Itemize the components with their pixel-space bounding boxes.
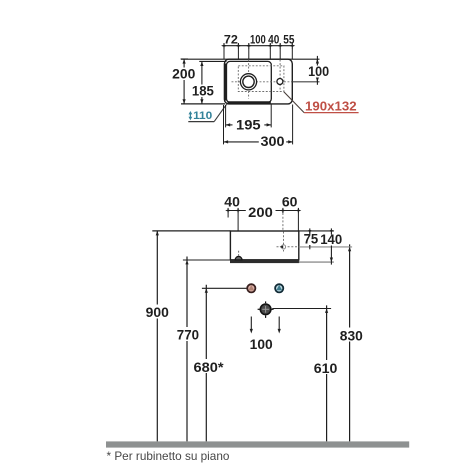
dimension 75 line [307,228,313,249]
teal depth arrow glyph [189,111,193,120]
svg-text:195: 195 [236,118,261,133]
extension line 60 left dashed [282,213,284,231]
footnote text [107,450,230,463]
svg-text:610: 610 [314,361,338,376]
tap hole circle [277,79,283,85]
dimension 610 line [272,305,331,441]
svg-text:200: 200 [248,205,273,220]
note 110 leader line [214,104,226,121]
dimension label 40 bottom [224,195,240,210]
svg-text:185: 185 [192,83,215,98]
red label 190x132 [305,99,357,113]
right bottom extension line [299,261,334,263]
tap position symbol [280,245,286,249]
dimension 140 line [329,228,335,264]
svg-text:680*: 680* [194,360,225,375]
extension line 40 left [227,213,229,218]
dimension label 900 [145,305,171,320]
washbasin plan view outer outline [224,59,292,104]
red underline [304,112,359,114]
dimension label 770 [176,327,201,343]
dimension 185 line [200,61,203,104]
dimension 300 line [224,105,293,145]
svg-text:40: 40 [224,195,240,210]
dimension label 610 [313,360,339,376]
dimension label 100 bottom [250,337,273,352]
extension line 200 left [237,213,239,231]
dimension 200 line [181,59,188,104]
svg-text:300: 300 [261,134,285,149]
right top extension line [299,230,334,232]
floor bar [106,441,409,447]
svg-text:200: 200 [172,67,195,82]
svg-text:75: 75 [304,232,319,247]
hot water supply symbol [247,284,255,292]
dimension label 72 [224,32,238,46]
dimension label 830 [339,328,364,344]
dashed tap-deck rectangle 190x132 [238,66,284,92]
drain trap bump [235,256,242,259]
dimension label 100 top [250,32,266,46]
svg-text:770: 770 [177,328,199,343]
dimension label 60 [282,195,298,210]
dimension label 40 top [268,32,279,46]
extension line 60 right [297,213,299,231]
svg-text:110: 110 [193,110,212,122]
dimension 680 line [202,285,247,442]
dimension 830 line [299,244,352,441]
dashed centerline through drain and tap hole [232,81,320,83]
svg-text:40: 40 [268,32,279,46]
svg-text:55: 55 [283,32,294,46]
dimension label 200 [171,67,197,82]
dimension label 185 [191,83,215,98]
dimension label 75 [303,232,319,247]
front view sink bottom thick edge [230,260,299,263]
svg-text:72: 72 [224,32,238,46]
cold water supply symbol [275,284,283,292]
plan view bottom edge extension line [181,103,225,105]
svg-text:190x132: 190x132 [305,99,357,113]
washbasin plan view inner basin outline [226,61,271,102]
dimension label 300 [260,134,286,149]
dashed tap vertical centerline front view [283,232,285,252]
svg-text:100: 100 [250,32,266,46]
svg-text:140: 140 [320,232,342,247]
drain hole double circle [240,74,256,90]
dashed drain centerline above bump [238,251,240,257]
chained dimension line 72/100/40/55 [221,43,295,59]
svg-text:* Per rubinetto su piano: * Per rubinetto su piano [107,450,230,463]
plan view top edge extension line [181,58,320,60]
teal label 110 [193,110,212,122]
svg-text:100: 100 [250,337,273,352]
note 110 underline [188,121,214,123]
plan view inner-rim left extension line [199,60,226,62]
dimension 770 line [183,257,231,442]
dimension label 55 [283,32,294,46]
svg-text:60: 60 [282,195,298,210]
chained dimension line 40/200/60 [225,208,301,213]
dashed vertical line through tap hole [279,60,281,92]
dashed tap horizontal centerline front view [277,246,299,248]
dimension 100 right line [316,56,319,85]
dimension 195 line [226,105,272,128]
svg-text:100: 100 [308,64,329,79]
dimension label 200 bottom [247,205,274,220]
dimension 900 line [152,231,230,442]
front view sink body outline [230,231,298,260]
dimension label 680* [193,359,224,375]
red note leader line [284,92,304,113]
dimension label 195 [235,118,263,133]
svg-text:830: 830 [340,329,363,344]
svg-text:900: 900 [146,305,169,320]
dimension label 140 [320,232,344,247]
dimension label 100 right [307,64,331,79]
dashed vertical centerline through drain [248,60,250,99]
waste drain symbol [258,301,274,318]
dimension 100 arrows [250,317,281,334]
